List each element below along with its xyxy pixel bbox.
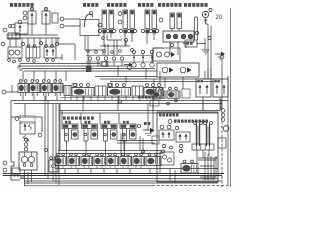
node stack [24,138,27,141]
port box G2 [102,62,108,67]
filter F1 [23,135,29,143]
port box OB [152,136,159,144]
row2 ports [8,59,11,62]
label boom cylinder [138,3,141,7]
node e3 [175,126,178,129]
wire mid drops [67,133,144,156]
wire bank L in [6,85,18,92]
wire left riser [55,38,75,60]
inner corner lines [200,156,216,177]
suction unit S1 [49,160,58,172]
node 27 [3,161,7,165]
valve V11 [176,132,190,142]
node 11 [89,11,92,14]
valve spool M1 [72,88,94,97]
node 23 [220,55,224,59]
wire pump down [20,170,32,186]
node 24 [2,90,6,94]
valve section B6 [120,157,132,166]
port box RL [150,100,159,106]
wire bank comb [65,96,160,101]
valve box R1 [196,79,211,97]
valve spool R0a [152,91,165,98]
wire bus3 [22,68,155,70]
node f1 [128,66,132,70]
valve cluster E2 [160,152,174,165]
strainer box dashed [20,116,35,124]
junction knot [86,66,92,72]
wire return drops [11,93,221,151]
pilot box V2b [52,13,58,23]
node e6 [223,126,229,132]
node 6 [9,25,12,28]
node e5 [179,149,182,152]
wire mid bus1 [58,150,162,152]
outrigger cylinder O1 [62,124,78,129]
valve section B7 [133,157,145,166]
cylinder C3 [145,10,150,29]
wire bottom bus3 [24,180,222,182]
label oil cooler [138,96,141,99]
wire bus7 [110,81,218,83]
pump group P2 [19,152,37,170]
end section L5 [64,86,71,96]
wire bus6 [100,78,222,80]
gauge block G1 [185,40,197,47]
label enclosure row1 [159,114,162,117]
label lift cylinder [184,3,187,7]
wire bus A [6,34,58,36]
label outrigger cylinder [63,117,66,120]
valve V8 [153,48,180,61]
brake valve BV [159,130,174,140]
node r2 [221,113,225,117]
wire bus5 [95,76,157,78]
node 26 [38,133,42,137]
node o1 [137,124,140,127]
node b1 [141,150,144,153]
outrigger label 3 [104,121,106,124]
pilot box M1b [95,86,106,96]
node 15 [118,12,122,16]
tank box outline [11,117,42,180]
wire cyl down [100,34,154,46]
check block V7 [163,31,194,42]
wire right risers [153,44,228,186]
node 19 [159,18,163,22]
cylinder C1 [102,10,107,29]
wire mid bus2 [58,153,162,155]
enclosure chain border [152,107,231,187]
node 17 [125,39,128,42]
node e4 [179,144,182,147]
pump P1 [202,11,208,17]
wire bottom bus4 [24,182,218,184]
valve section B2 [68,157,80,166]
wire c4 [170,29,186,56]
cylinder C3 ports [145,30,149,34]
node e2 [167,125,171,129]
cylinder C4 [170,13,175,29]
wire border right [230,8,232,187]
cylinder C2 [123,10,128,29]
travel motor hoses [197,124,210,146]
wire bottom bus0 [55,168,218,170]
outrigger cylinder O4 [120,124,136,129]
wire bottom bus2 [3,175,222,177]
arrow symbol A2 [143,129,150,131]
node e1 [160,125,164,129]
node e8 [170,146,173,149]
valve section L2 [30,84,41,93]
wire bus4 [24,70,157,72]
svg-text:20: 20 [216,15,223,21]
cylinder C2 ports [123,30,127,34]
wire pilot pair [195,17,212,68]
label drain2 [144,122,147,125]
reducing valve V3 [15,23,28,34]
node 10 [55,42,58,45]
check valve K2 [141,50,144,53]
valve section L1 [18,84,29,93]
check valve block V5 [26,47,40,58]
cylinder C1 ports [102,30,106,34]
valve box V9 [157,63,199,77]
node r3 [221,118,225,122]
wire enclosure feed [117,141,157,144]
tank T1 [12,168,20,177]
node 7 [1,42,5,46]
node b2 [161,150,164,153]
wire bus verticals [18,62,228,84]
wire return2 [14,103,222,105]
wire gauge top [86,55,152,57]
port box R0c [182,89,190,98]
node rr2 [167,102,170,105]
hose top ports [194,122,197,125]
label dump cylinder [107,3,110,7]
node r1 [221,109,225,113]
node 14 [98,23,102,27]
pump block V4 [8,47,22,58]
label circled e [168,120,172,124]
wire bus B [6,37,60,39]
valve spool E1 [181,164,198,174]
flow arrow F1 [124,64,129,66]
node 28 [3,168,7,172]
node 20 [195,31,198,34]
node e7 [162,144,165,147]
wire bottom bus1 [3,173,224,175]
wire return3 [60,110,220,112]
enclosure border [157,112,218,182]
node 22 [170,43,173,46]
valve section B8 [146,157,161,166]
outrigger label 2 [85,121,87,124]
wire encl feeds v [148,104,153,130]
wire return4 [60,112,218,114]
wire sm left [64,19,80,26]
wire bottom bus2b [20,178,218,180]
node rr3 [175,99,178,102]
label pilot circuit [10,3,13,7]
node 16 [118,20,122,24]
valve V10 [20,122,35,134]
relief valve V2 [42,11,50,24]
wire bank underline [60,97,163,99]
node 21 [208,37,211,40]
swing motor SM [80,20,99,36]
wire sm down [85,36,117,67]
outrigger label 1 [65,121,67,124]
manifold block M1 [8,33,20,39]
label travel unit [174,120,177,123]
wire tl drops [10,8,56,47]
valve spool M3 [144,88,163,97]
node rr1 [119,100,122,103]
label swing motor [83,3,86,7]
node 18 [102,37,105,40]
wire enclosure [197,150,218,180]
wire left bundle [45,96,59,185]
node 8 [21,42,24,45]
wire return1 [11,100,228,102]
node 9 [39,41,42,44]
valve section B5 [107,157,119,166]
node 4 [11,24,15,28]
valve section B3 [81,157,93,166]
node 2 [23,16,27,20]
node 1 [23,11,27,15]
node 13 [60,24,64,28]
valve block V6 [44,47,56,58]
motor manifold MM [192,144,214,150]
strip rings [87,50,90,53]
pilot box M2b [132,86,143,96]
valve section L3 [41,84,52,93]
valve box R2 [213,79,228,97]
node 29 [45,149,48,152]
wire bottom verticals [65,166,175,184]
node 12 [60,17,64,21]
wire bus2 [18,65,132,67]
label slide cylinder [158,3,161,7]
gauge ports row [88,57,91,60]
wire bottom bus5 [24,185,152,187]
node 5 [3,28,7,32]
port box E0 [218,138,226,148]
outrigger cylinder O2 [82,124,98,129]
valve section B4 [94,157,106,166]
valve section L4 [53,84,64,93]
outrigger label 4 [123,121,125,124]
outrigger cylinder O3 [101,124,117,129]
arrow symbol A1 [215,53,221,55]
relief valve V1 [28,11,36,24]
valve spool R0b [167,91,180,98]
spool caps [72,84,77,88]
check valve K1 [132,50,135,53]
node 25 [15,117,19,121]
valve section B1 [55,157,67,166]
drain symbol D1 [202,38,209,54]
pump tail [204,18,208,24]
valve spool M2 [108,88,131,97]
wire bus1 [20,63,100,65]
check valve K3 [150,50,153,53]
node 3 [18,20,22,24]
node k1 [131,49,134,52]
